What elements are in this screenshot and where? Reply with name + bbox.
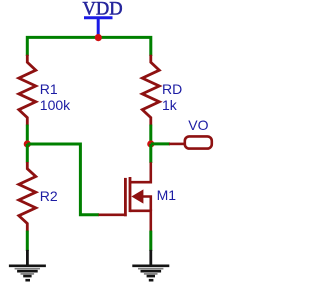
resistor R1 [19, 55, 36, 125]
wire R1 to node A [26, 125, 29, 145]
svg-text:R1: R1 [40, 81, 58, 97]
bulk lead with arrow [142, 197, 151, 211]
port VO [169, 136, 212, 148]
channel bar [129, 177, 132, 212]
wire RD to node VO [149, 125, 152, 145]
transistor M1 [99, 162, 151, 231]
svg-text:M1: M1 [157, 187, 177, 203]
svg-text:1k: 1k [162, 97, 178, 113]
wire node VO to port [151, 142, 170, 145]
resistor RD [142, 55, 159, 125]
wire R2 to ground [26, 231, 29, 251]
svg-text:100k: 100k [40, 97, 71, 113]
drain lead [130, 162, 151, 182]
gate lead [99, 214, 127, 217]
wire node VO to drain [149, 144, 152, 163]
junction node VO [147, 140, 154, 147]
svg-text:RD: RD [162, 81, 182, 97]
source lead [130, 211, 151, 231]
wire top VDD rail [27, 37, 151, 56]
svg-text:R2: R2 [40, 188, 58, 204]
power symbol VDD [83, 0, 123, 36]
svg-text:VDD: VDD [83, 0, 123, 20]
wire source to ground [149, 231, 152, 251]
gate bar [124, 178, 127, 216]
ground right [132, 250, 169, 280]
svg-text:VO: VO [188, 117, 208, 133]
ground left [9, 250, 46, 280]
wire node A to gate (net to M1 gate) [27, 144, 99, 215]
wire node A to R2 [26, 144, 29, 163]
junction dot on VDD rail [95, 34, 102, 41]
junction node A [24, 140, 31, 147]
resistor R2 [19, 162, 36, 231]
